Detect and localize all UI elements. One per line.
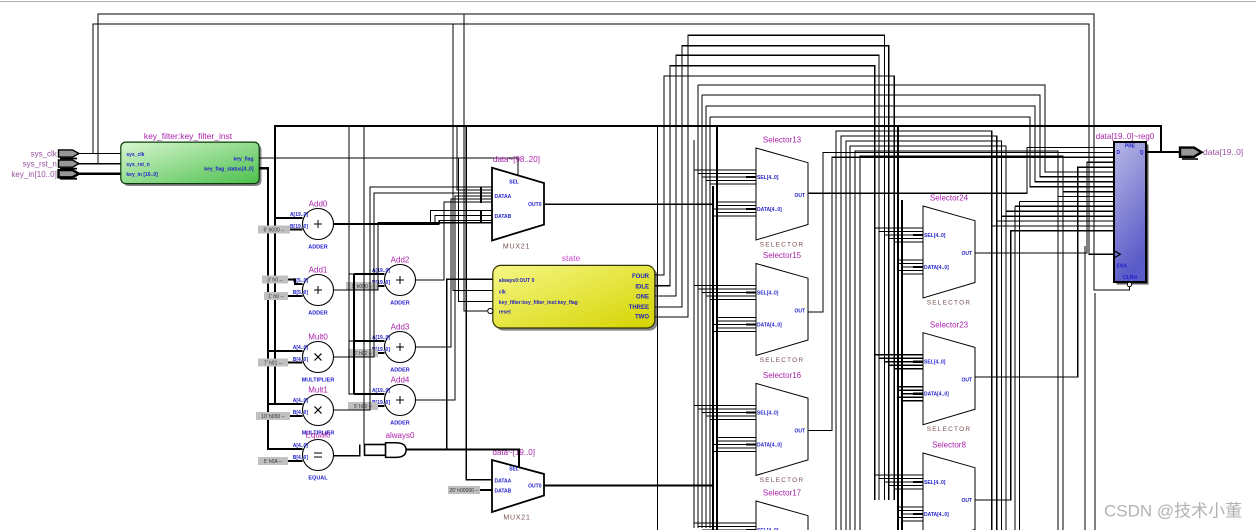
wire sel trunk left 3 bbox=[705, 106, 707, 528]
svg-text:OUT: OUT bbox=[794, 193, 805, 199]
adder Add2 bbox=[372, 255, 416, 306]
wire SEL comb Selector23 bbox=[875, 355, 923, 369]
watermark CSDN bbox=[1104, 502, 1242, 521]
wire sel trunk left 2 bbox=[701, 95, 703, 528]
svg-text:MUX21: MUX21 bbox=[503, 515, 530, 522]
svg-text:Selector24: Selector24 bbox=[930, 194, 969, 203]
svg-text:SEL[4..0]: SEL[4..0] bbox=[757, 410, 779, 416]
wire clk trunk bbox=[93, 24, 1114, 254]
svg-text:SEL: SEL bbox=[509, 467, 519, 473]
adder Add4 bbox=[372, 375, 416, 426]
selector Selector17 bbox=[756, 489, 808, 530]
wire plain riser b bbox=[1019, 201, 1114, 530]
svg-text:sys_rst_n: sys_rst_n bbox=[126, 162, 149, 168]
svg-text:OUT: OUT bbox=[794, 309, 805, 315]
svg-text:Selector23: Selector23 bbox=[930, 320, 969, 329]
svg-text:7' h01 --: 7' h01 -- bbox=[264, 361, 283, 367]
wire SEL comb Selector24 bbox=[875, 228, 923, 242]
mux data~[19..0] MUX21 bottom bbox=[492, 448, 544, 522]
wire state out 4 bbox=[655, 35, 885, 500]
multiplier Mult1 bbox=[293, 385, 335, 436]
wire Add0 A input bbox=[275, 217, 303, 219]
svg-text:SELECTOR: SELECTOR bbox=[760, 477, 805, 484]
wire gamma 2 bbox=[706, 106, 1114, 182]
svg-text:THREE: THREE bbox=[629, 305, 649, 311]
svg-text:IDLE: IDLE bbox=[635, 284, 649, 290]
selector Selector24 bbox=[923, 194, 975, 307]
svg-text:SEL: SEL bbox=[509, 180, 519, 186]
svg-text:key_flag: key_flag bbox=[233, 156, 253, 162]
wire bus to Add2 Add3 Add4 bbox=[349, 126, 354, 394]
svg-text:PRE: PRE bbox=[1125, 144, 1136, 150]
wire sys_rst_n to key_filter bbox=[79, 163, 121, 165]
wire Selector13 OUT bbox=[808, 148, 1114, 194]
wire Add4 out bbox=[416, 196, 493, 400]
wire clrn trunk down bbox=[1094, 293, 1096, 530]
svg-text:SEL[4..0]: SEL[4..0] bbox=[757, 291, 779, 297]
svg-text:ADDER: ADDER bbox=[308, 245, 328, 251]
svg-text:DATAA: DATAA bbox=[495, 194, 512, 200]
selector Selector16 bbox=[756, 371, 808, 484]
svg-text:sys_rst_n: sys_rst_n bbox=[23, 160, 57, 169]
svg-text:5' h0A --: 5' h0A -- bbox=[264, 459, 283, 465]
wire DATA comb Selector8 bbox=[898, 507, 923, 521]
svg-text:MULTIPLIER: MULTIPLIER bbox=[302, 378, 335, 384]
adder Add3 bbox=[372, 322, 416, 373]
value 3'h0 const Add1 A bbox=[262, 276, 303, 285]
svg-text:data~[98..20]: data~[98..20] bbox=[493, 155, 540, 164]
wire data trunk x713 bbox=[712, 186, 714, 530]
svg-text:Selector8: Selector8 bbox=[932, 441, 966, 450]
gate always0 bbox=[365, 431, 416, 457]
svg-text:6' h000 --: 6' h000 -- bbox=[264, 228, 285, 234]
wire Selector23 OUT bbox=[975, 167, 1114, 377]
state machine state bbox=[488, 253, 658, 331]
wire state out 2 bbox=[655, 55, 879, 500]
svg-text:3' h0 --: 3' h0 -- bbox=[267, 278, 283, 284]
svg-text:Selector16: Selector16 bbox=[763, 371, 802, 380]
wire sel trunk left 4 bbox=[709, 117, 711, 528]
svg-text:10' h050 --: 10' h050 -- bbox=[261, 414, 285, 420]
svg-text:OUT: OUT bbox=[961, 498, 972, 504]
wire reset trunk bbox=[98, 14, 1130, 290]
selector Selector8 bbox=[923, 441, 975, 530]
svg-text:ENA: ENA bbox=[1117, 264, 1128, 270]
wire Mult1 A input bbox=[268, 403, 303, 405]
adder Add0 bbox=[290, 199, 334, 250]
wire data trunk right bbox=[897, 126, 899, 530]
value 1'h000 const Add2 B bbox=[346, 282, 385, 290]
value 10'h050 const Mult1 B bbox=[256, 412, 303, 420]
wire bottom riser 1 bbox=[841, 136, 1114, 530]
svg-text:OUT0: OUT0 bbox=[528, 484, 542, 490]
svg-text:Selector13: Selector13 bbox=[763, 136, 802, 145]
svg-text:CSDN @技术小董: CSDN @技术小董 bbox=[1104, 502, 1242, 521]
wire Add0 riser c bbox=[439, 220, 492, 224]
wire bottom riser 4 bbox=[855, 151, 1114, 530]
svg-text:DATA[4..0]: DATA[4..0] bbox=[757, 207, 782, 213]
wire state out 3 bbox=[655, 46, 889, 500]
svg-text:ADDER: ADDER bbox=[390, 368, 410, 374]
svg-text:Equal0: Equal0 bbox=[306, 430, 331, 439]
svg-text:Add1: Add1 bbox=[309, 265, 328, 274]
svg-text:1' h0 --: 1' h0 -- bbox=[268, 294, 284, 300]
wire data trunk x717 bbox=[716, 126, 718, 530]
svg-text:SELECTOR: SELECTOR bbox=[927, 426, 972, 433]
svg-text:Add2: Add2 bbox=[391, 255, 410, 264]
svg-text:Q: Q bbox=[1140, 150, 1144, 156]
output pin data[19..0] bbox=[1180, 147, 1243, 159]
svg-text:DATAB: DATAB bbox=[495, 489, 512, 495]
svg-text:Add3: Add3 bbox=[391, 322, 410, 331]
svg-text:DATA[4..0]: DATA[4..0] bbox=[757, 442, 782, 448]
svg-text:Selector17: Selector17 bbox=[763, 489, 802, 498]
svg-text:SEL[4..0]: SEL[4..0] bbox=[757, 175, 779, 181]
wire Equal0 out to always0 bbox=[334, 445, 360, 456]
svg-text:MUX21: MUX21 bbox=[503, 244, 530, 251]
svg-text:Selector15: Selector15 bbox=[763, 251, 802, 260]
wire Add3 out bbox=[416, 199, 493, 347]
svg-text:DATA[4..0]: DATA[4..0] bbox=[924, 265, 949, 271]
svg-text:DATA[4..0]: DATA[4..0] bbox=[924, 392, 949, 398]
wire Add0 riser b bbox=[435, 216, 492, 225]
wire gamma 0 bbox=[698, 85, 1114, 172]
svg-text:state: state bbox=[562, 253, 581, 263]
wire top mux OUT0 bbox=[544, 203, 713, 205]
wire DATA comb Selector16 bbox=[713, 437, 756, 451]
wire Mult1 out bbox=[334, 187, 493, 410]
svg-text:DATA[4..0]: DATA[4..0] bbox=[924, 512, 949, 518]
wire mid vertical bbox=[363, 126, 365, 445]
svg-text:OUT0: OUT0 bbox=[528, 202, 542, 208]
wire Selector24 OUT bbox=[975, 162, 1114, 253]
wire plain riser a bbox=[1015, 206, 1114, 530]
svg-text:SEL[4..0]: SEL[4..0] bbox=[924, 360, 946, 366]
wire state out 0 bbox=[655, 76, 895, 500]
svg-text:ONE: ONE bbox=[636, 295, 649, 301]
wire sel trunk left 1 bbox=[697, 85, 699, 528]
svg-text:ADDER: ADDER bbox=[308, 311, 328, 317]
wire DATAB bus ripper top mux bbox=[480, 210, 482, 224]
module key_filter U1 (key_filter_inst) bbox=[121, 131, 262, 186]
value 7'h01 const Mult0 B bbox=[258, 359, 303, 367]
wire Add0 riser a bbox=[431, 211, 493, 224]
wire vertical x1085 bbox=[1084, 246, 1086, 530]
svg-text:key_in[10..0]: key_in[10..0] bbox=[11, 170, 56, 179]
comparator Equal0 bbox=[293, 430, 334, 481]
adder Add1 bbox=[293, 265, 334, 316]
selector Selector13 bbox=[756, 136, 808, 249]
wire DATA comb Selector23 bbox=[898, 387, 923, 401]
value 6'h000 const Add0 B bbox=[258, 226, 303, 234]
svg-text:data[19..0]~reg0: data[19..0]~reg0 bbox=[1096, 132, 1155, 141]
svg-text:sys_clk: sys_clk bbox=[126, 152, 144, 158]
wire bottom riser 2 bbox=[846, 141, 1114, 530]
wire Add4 A input bbox=[354, 393, 385, 395]
value 1'h0 const Add1 B2 bbox=[264, 292, 303, 300]
register data[19..0]~reg0 bbox=[1096, 132, 1155, 287]
svg-text:Add4: Add4 bbox=[391, 375, 410, 384]
wire gamma 3 bbox=[710, 117, 1114, 187]
svg-text:data[19..0]: data[19..0] bbox=[1203, 147, 1243, 157]
input pin sys_rst_n bbox=[23, 160, 79, 169]
svg-text:Mult0: Mult0 bbox=[308, 332, 328, 341]
wire Selector16 OUT bbox=[808, 157, 1114, 430]
svg-text:SELECTOR: SELECTOR bbox=[927, 300, 972, 307]
input pin key_in[10..0] bbox=[11, 170, 79, 179]
wire bottom mux DATAA bbox=[466, 126, 492, 480]
wire sel trunk left 0 bbox=[693, 140, 695, 528]
svg-text:sys_clk: sys_clk bbox=[31, 150, 58, 159]
wire always0 to state bbox=[447, 279, 493, 449]
wire DATA comb Selector24 bbox=[898, 260, 923, 274]
wire Mult0 out bbox=[334, 193, 493, 357]
wire bottom riser 3 bbox=[850, 146, 1114, 530]
wire SEL comb Selector17 bbox=[694, 523, 756, 530]
svg-text:SELECTOR: SELECTOR bbox=[760, 242, 805, 249]
svg-text:key_flag_status[4..0]: key_flag_status[4..0] bbox=[204, 166, 254, 172]
svg-text:SEL[4..0]: SEL[4..0] bbox=[924, 480, 946, 486]
selector Selector23 bbox=[923, 320, 975, 433]
wire gamma 1 bbox=[702, 95, 1114, 177]
wire Add0 out bbox=[334, 223, 440, 225]
svg-text:DATA[4..0]: DATA[4..0] bbox=[757, 323, 782, 329]
wire Equal0 A input bbox=[268, 448, 303, 450]
wire DATAA bus ripper top mux bbox=[480, 187, 482, 203]
svg-text:key_filter:key_filter_inst:key: key_filter:key_filter_inst:key_flag bbox=[499, 300, 578, 306]
wire Add1 out bbox=[334, 223, 493, 290]
wire vertical x657 bbox=[657, 126, 659, 530]
svg-text:always0:OUT 0: always0:OUT 0 bbox=[499, 278, 535, 284]
wire Add2 A input bbox=[354, 273, 385, 275]
svg-text:Mult1: Mult1 bbox=[308, 385, 328, 394]
wire bottom riser 0 bbox=[836, 131, 1114, 530]
svg-text:OUT: OUT bbox=[961, 378, 972, 384]
svg-text:DATAA: DATAA bbox=[495, 479, 512, 485]
value 5'h0A const Equal0 B bbox=[258, 457, 303, 465]
svg-text:OUT: OUT bbox=[961, 251, 972, 257]
svg-text:Add0: Add0 bbox=[309, 199, 328, 208]
svg-text:OUT: OUT bbox=[794, 428, 805, 434]
wire DATA comb Selector15 bbox=[713, 318, 756, 332]
wire key_flag_status bus bbox=[259, 168, 287, 449]
wire SEL comb Selector13 bbox=[694, 170, 756, 184]
top window border line bbox=[0, 1, 1256, 3]
mux data~[98..20] MUX21 top bbox=[492, 155, 544, 251]
svg-text:always0: always0 bbox=[386, 431, 415, 440]
wire bottom mux OUT0 bbox=[544, 485, 713, 487]
wire SEL comb Selector8 bbox=[875, 475, 923, 489]
wire SEL comb Selector15 bbox=[694, 286, 756, 300]
value 6'h02 const Add3 B bbox=[348, 349, 385, 357]
selector Selector15 bbox=[756, 251, 808, 364]
svg-text:CLRN: CLRN bbox=[1123, 275, 1137, 281]
wire always0 out bbox=[406, 449, 519, 466]
svg-text:EQUAL: EQUAL bbox=[308, 476, 328, 482]
wire key_in bus to key_filter bbox=[79, 172, 121, 174]
svg-text:SELECTOR: SELECTOR bbox=[760, 357, 805, 364]
wire bottom riser 5 bbox=[860, 156, 1114, 530]
wire sys_clk to key_filter bbox=[79, 153, 121, 155]
svg-text:D: D bbox=[1117, 150, 1121, 156]
wire Selector15 OUT bbox=[808, 152, 1114, 312]
value 20'h00000 const bottom mux DATAB bbox=[448, 486, 492, 494]
wire data trunk right2 bbox=[901, 200, 903, 530]
wire Add2 out bbox=[416, 202, 493, 280]
svg-text:ADDER: ADDER bbox=[390, 301, 410, 307]
wire SEL comb Selector16 bbox=[694, 405, 756, 419]
wire DATA comb Selector13 bbox=[713, 202, 756, 216]
wire clk to state bbox=[453, 24, 493, 291]
wire Selector8 OUT bbox=[975, 231, 1114, 500]
svg-text:TWO: TWO bbox=[635, 314, 649, 320]
svg-text:clk: clk bbox=[499, 290, 506, 296]
svg-text:key_filter:key_filter_inst: key_filter:key_filter_inst bbox=[144, 131, 233, 141]
wire Add3 A input bbox=[354, 340, 385, 342]
wire key_flag net bbox=[259, 158, 518, 302]
wire state out 1 bbox=[655, 66, 875, 500]
input pin sys_clk bbox=[31, 150, 79, 159]
wire data feedback bus bbox=[275, 126, 1161, 404]
svg-text:DATAB: DATAB bbox=[495, 214, 512, 220]
svg-text:key_in [10..0]: key_in [10..0] bbox=[126, 172, 158, 178]
multiplier Mult0 bbox=[293, 332, 335, 383]
svg-text:SEL[4..0]: SEL[4..0] bbox=[924, 233, 946, 239]
svg-text:ADDER: ADDER bbox=[390, 421, 410, 427]
wire Mult0 A input bbox=[268, 350, 303, 352]
wire Q to output pin bbox=[1146, 151, 1180, 153]
wire feedback to DATAA bbox=[457, 126, 492, 190]
svg-text:FOUR: FOUR bbox=[632, 274, 650, 280]
svg-text:20' h00000 --: 20' h00000 -- bbox=[449, 488, 479, 494]
svg-text:reset: reset bbox=[499, 310, 511, 316]
wire reset to state bbox=[464, 14, 487, 311]
value 5'h00 const Add4 B bbox=[348, 402, 385, 410]
